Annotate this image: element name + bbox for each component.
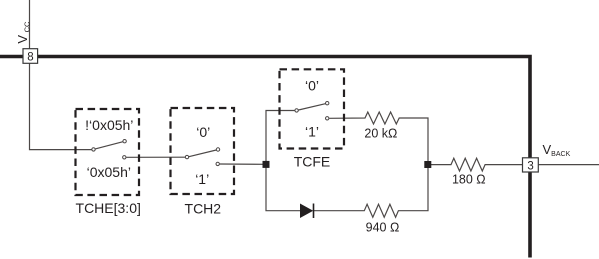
- svg-text:!‘0x05h’: !‘0x05h’: [85, 117, 133, 133]
- svg-text:180 Ω: 180 Ω: [452, 173, 486, 187]
- svg-text:‘0x05h’: ‘0x05h’: [87, 164, 131, 180]
- svg-text:‘1’: ‘1’: [305, 124, 319, 140]
- svg-text:‘0’: ‘0’: [196, 124, 210, 140]
- svg-text:20 kΩ: 20 kΩ: [364, 127, 397, 141]
- svg-text:TCFE: TCFE: [294, 154, 331, 170]
- svg-text:TCHE[3:0]: TCHE[3:0]: [76, 200, 141, 216]
- svg-text:940 Ω: 940 Ω: [366, 221, 400, 235]
- svg-text:‘0’: ‘0’: [305, 78, 319, 94]
- svg-text:8: 8: [27, 52, 33, 64]
- svg-text:TCH2: TCH2: [185, 200, 222, 216]
- svg-text:‘1’: ‘1’: [195, 171, 209, 187]
- svg-text:3: 3: [527, 160, 533, 172]
